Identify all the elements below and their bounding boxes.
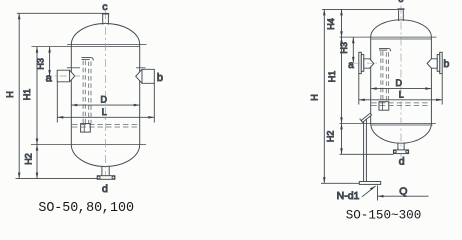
- svg-text:H: H: [5, 91, 15, 98]
- svg-text:c: c: [398, 0, 403, 5]
- nozzle b right flange: [427, 52, 442, 73]
- H2 extension right: [340, 153, 394, 155]
- nozzle a: [57, 70, 75, 82]
- svg-text:H1: H1: [327, 71, 337, 83]
- svg-text:H3: H3: [36, 58, 46, 70]
- svg-text:SO-50,80,100: SO-50,80,100: [38, 201, 134, 216]
- bottom tangent extension line right: [340, 122, 436, 124]
- svg-text:N-d1: N-d1: [337, 190, 360, 202]
- bottom tangent line: [31, 144, 146, 146]
- svg-text:a: a: [46, 72, 53, 84]
- svg-text:d: d: [102, 183, 108, 195]
- nozzle a centerline right: [354, 62, 377, 64]
- nozzle d right: [393, 143, 408, 153]
- dimension H2: [36, 145, 39, 179]
- svg-text:Q: Q: [399, 186, 407, 198]
- svg-text:D: D: [396, 78, 403, 88]
- vessel shell body right: [371, 20, 432, 143]
- H bottom extension right: [321, 182, 359, 184]
- internal horizontal dashed pipe: [72, 125, 139, 127]
- top tangent seam line right: [371, 38, 432, 40]
- dimension D: [71, 104, 139, 107]
- svg-text:L: L: [102, 107, 107, 117]
- dimension D right: [371, 87, 432, 90]
- dimension L right: [359, 99, 442, 102]
- svg-text:H1: H1: [22, 89, 32, 101]
- svg-text:b: b: [443, 58, 449, 70]
- dimension H3 right: [352, 37, 355, 63]
- internal pipe dashed walls right: [381, 51, 389, 101]
- internal horizontal dashed pipe right: [371, 103, 427, 106]
- svg-text:D: D: [101, 94, 108, 104]
- nozzle a right flange: [359, 52, 374, 73]
- nozzle d: [97, 167, 115, 180]
- nozzle c right: [397, 9, 404, 21]
- svg-text:b: b: [157, 72, 163, 84]
- dimension H extension top: [17, 12, 102, 14]
- dimension H right: [323, 9, 326, 183]
- dimension H2 right: [340, 123, 343, 154]
- L extension lines right: [359, 74, 442, 105]
- leg brace diagonal: [360, 113, 372, 122]
- support leg: [364, 117, 367, 182]
- internal pipe top cap: [82, 58, 94, 61]
- svg-text:H: H: [309, 94, 319, 101]
- centerline vertical: [105, 11, 107, 176]
- svg-text:H2: H2: [23, 153, 33, 165]
- Q dimension: [378, 186, 429, 201]
- svg-text:H3: H3: [339, 42, 349, 54]
- bottom tangent seam line right: [371, 124, 433, 126]
- svg-text:H4: H4: [326, 18, 336, 30]
- internal pipe bottom box: [81, 124, 91, 133]
- top tangent extension line: [32, 46, 141, 48]
- svg-text:H2: H2: [326, 131, 336, 143]
- dimension H4: [340, 9, 343, 37]
- svg-text:d: d: [399, 156, 405, 168]
- nozzle c: [102, 14, 109, 25]
- dimension H3: [48, 47, 51, 76]
- dimension L: [57, 116, 154, 119]
- internal pipe dashed walls: [83, 61, 91, 124]
- dimension H1 right: [340, 37, 343, 123]
- svg-text:SO-150~300: SO-150~300: [346, 209, 422, 223]
- dimension H: [18, 13, 21, 178]
- N-d1 label with leader: [362, 186, 376, 197]
- dimension bottom extension: [16, 178, 98, 180]
- centerline vertical right: [400, 6, 402, 158]
- seam tick right: [136, 67, 146, 69]
- nozzle a centerline: [46, 75, 81, 77]
- top tangent extension line right: [340, 36, 437, 38]
- leg base plate: [359, 182, 380, 185]
- vessel shell body: [71, 24, 139, 167]
- H extension top right: [322, 8, 397, 10]
- svg-text:L: L: [399, 89, 404, 99]
- nozzle b: [136, 69, 155, 83]
- L extension lines: [57, 82, 154, 123]
- internal pipe top cap right: [379, 48, 391, 51]
- dimension H1: [36, 47, 39, 145]
- seam tick left: [67, 67, 80, 69]
- internal pipe bottom box right: [379, 102, 389, 111]
- svg-text:c: c: [102, 1, 107, 13]
- top tangent seam line: [67, 44, 147, 46]
